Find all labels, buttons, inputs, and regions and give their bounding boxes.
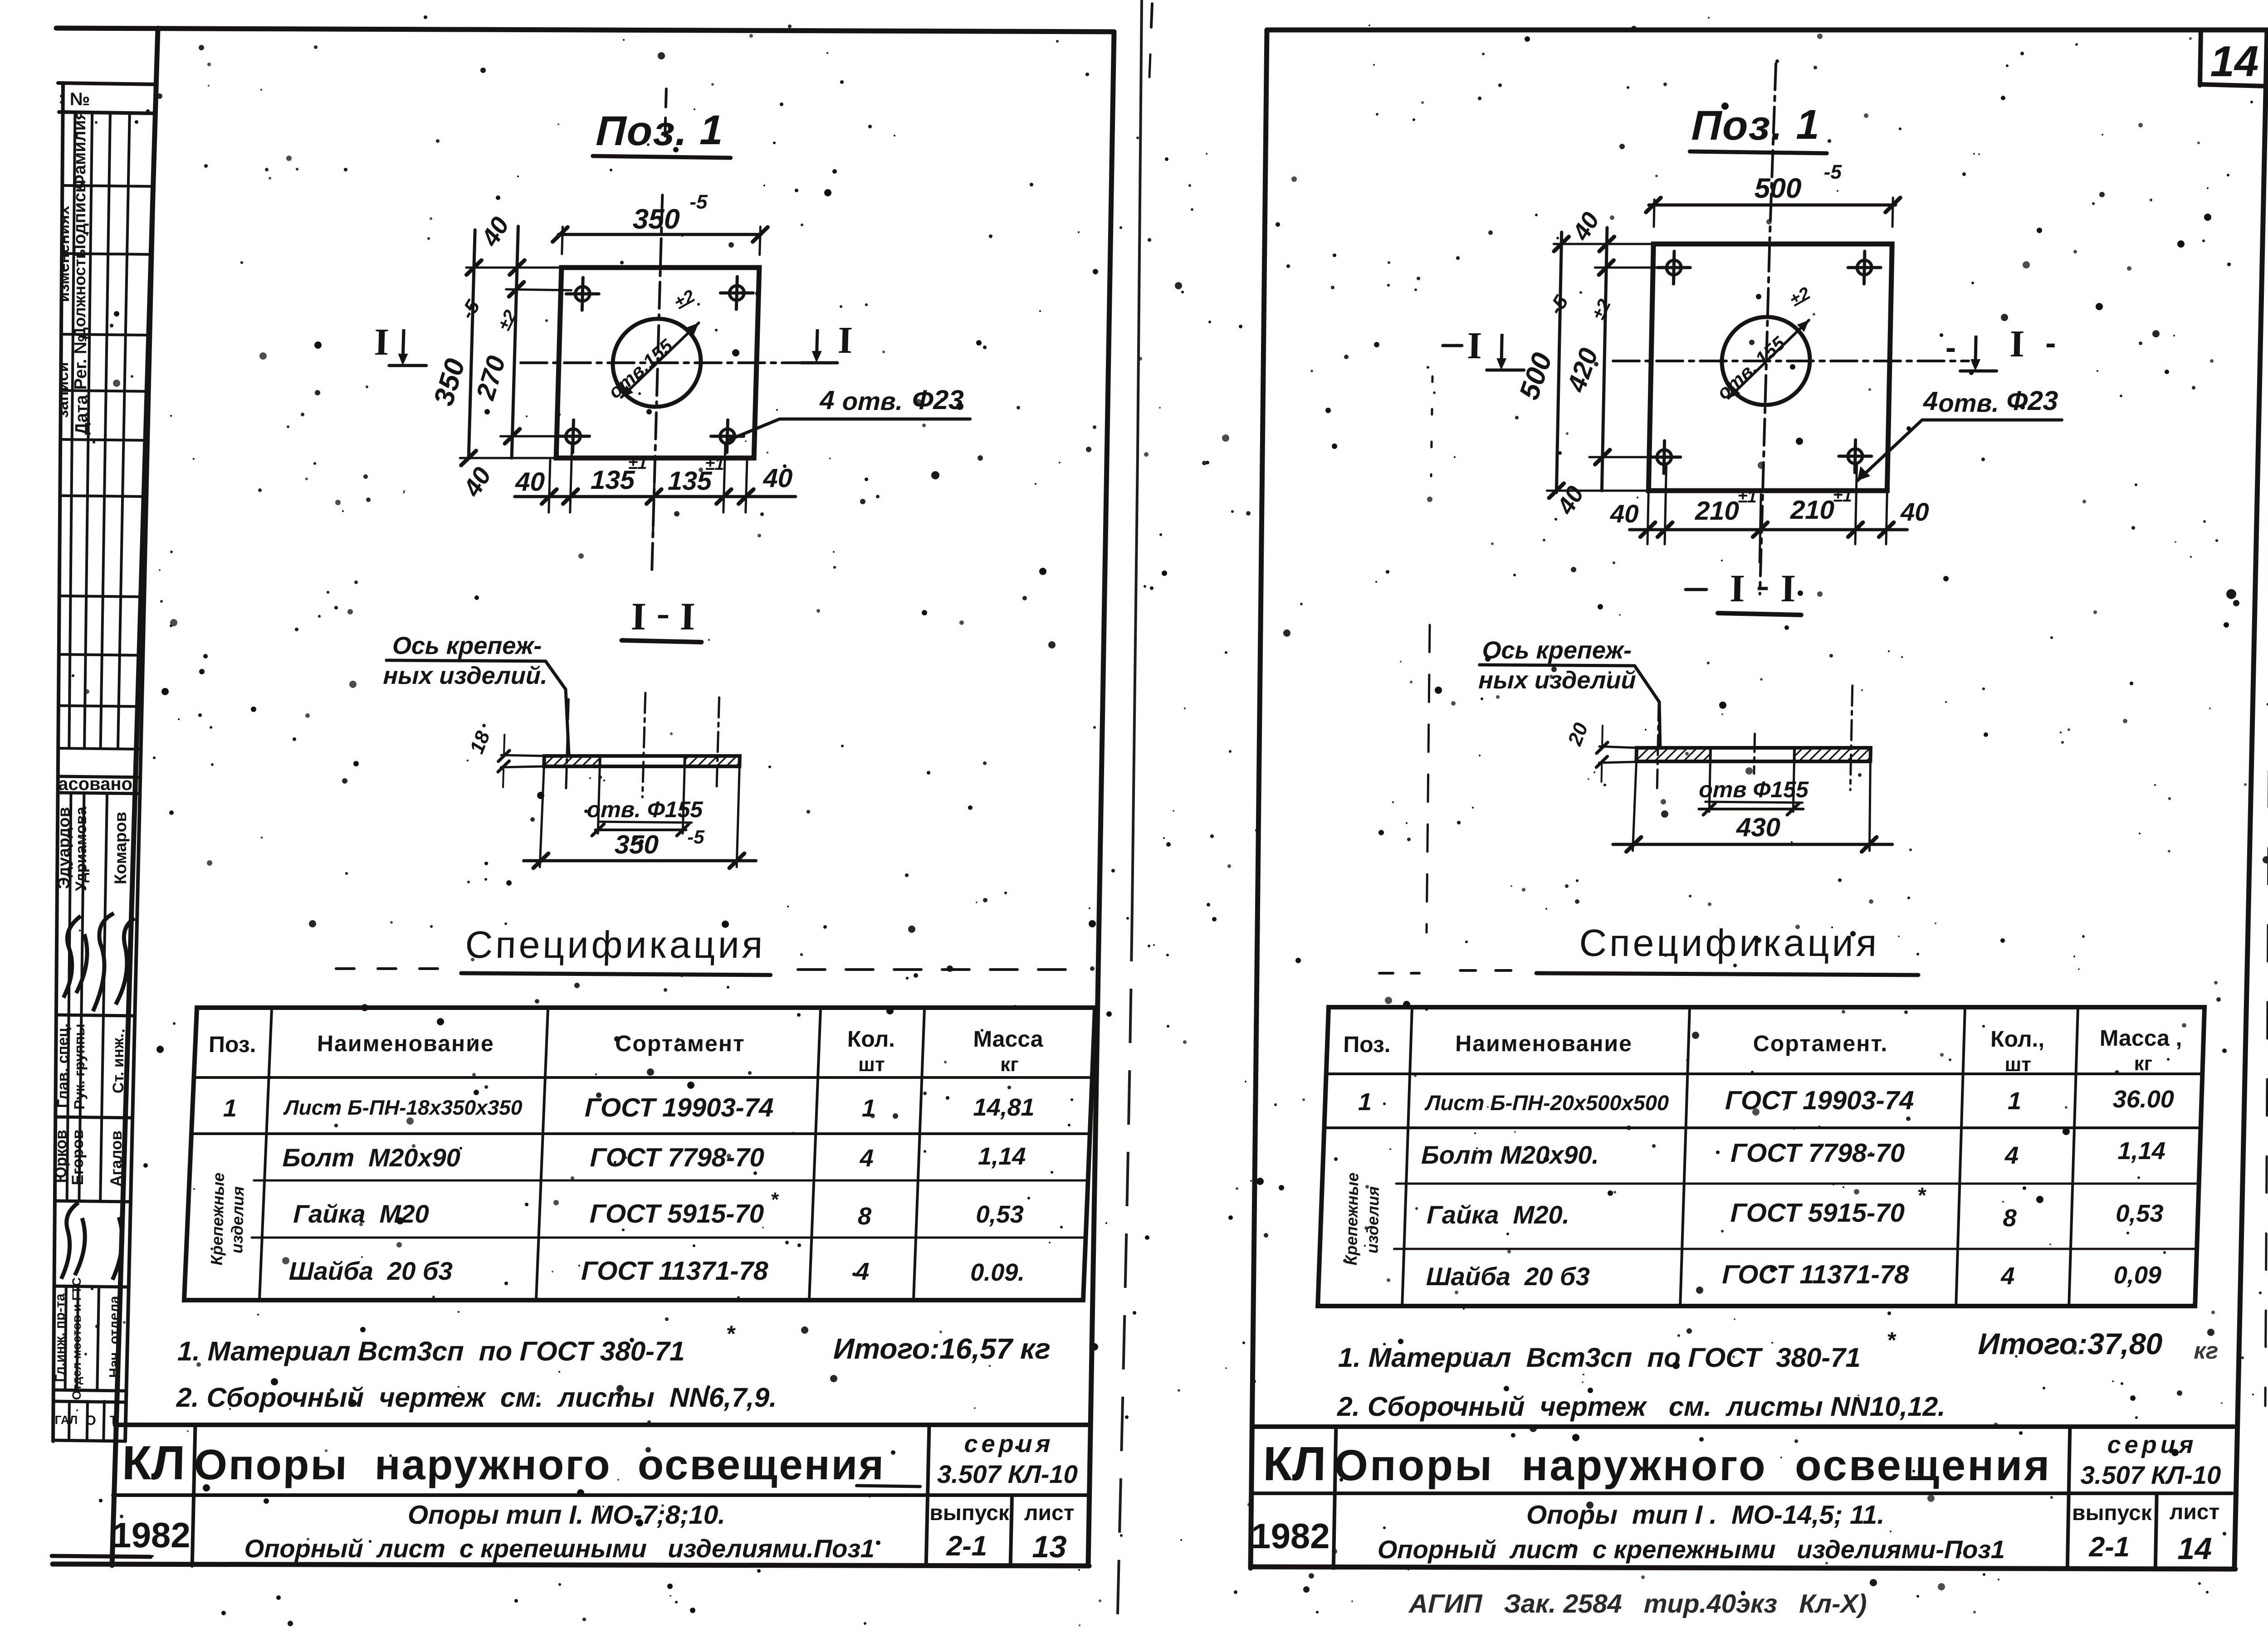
central hole circle (1721, 317, 1811, 405)
spec table row lines (194, 1076, 1093, 1079)
svg-text:Ст. инж.: Ст. инж. (110, 1033, 127, 1093)
svg-text:Подпись: Подпись (70, 182, 89, 257)
dim 430 (1633, 764, 1636, 851)
svg-text:4: 4 (855, 1258, 870, 1285)
left outer dimension 500-5 (1556, 232, 1561, 492)
svg-text:0,53: 0,53 (2116, 1200, 2164, 1227)
svg-text:1: 1 (699, 107, 723, 153)
svg-text:I: I (1466, 325, 1482, 367)
svg-text:1,14: 1,14 (978, 1143, 1026, 1170)
svg-text:шт: шт (858, 1053, 885, 1076)
bottom dimension chain 40|210|210|40 (1630, 528, 1907, 531)
svg-text:3.507 КЛ-10: 3.507 КЛ-10 (2080, 1461, 2221, 1489)
hatched left segment (544, 756, 600, 766)
svg-text:36.00: 36.00 (2112, 1086, 2174, 1113)
bolt hole bottom-right (720, 429, 735, 444)
svg-text:-5: -5 (456, 296, 485, 323)
horizontal centerline (1613, 360, 1969, 362)
svg-text:Кол.: Кол. (847, 1026, 895, 1052)
svg-text:430: 430 (1735, 813, 1780, 842)
svg-text:I: I (2009, 323, 2025, 365)
svg-text:ГОСТ 11371-78: ГОСТ 11371-78 (581, 1256, 769, 1286)
svg-text:Лист Б-ПН-20х500х500: Лист Б-ПН-20х500х500 (1424, 1091, 1669, 1115)
svg-text:±1: ±1 (705, 455, 724, 474)
section mark I left (1443, 344, 1462, 347)
svg-text:210: 210 (1789, 495, 1834, 525)
svg-text:1: 1 (1358, 1088, 1372, 1116)
svg-text:Опорный лист с крепешными: Опорный лист с крепешными изделиями.Поз1 (244, 1534, 875, 1563)
svg-text:Рег. №: Рег. № (71, 335, 90, 390)
spine dash artifacts (1151, 4, 1152, 27)
sheet frame top border (56, 28, 1114, 32)
thickness dim 20 (1599, 746, 1637, 748)
svg-text:4: 4 (819, 385, 835, 415)
plate centerline (642, 693, 645, 797)
svg-text:4: 4 (859, 1145, 874, 1172)
central hole circle отв.155 (611, 319, 702, 407)
svg-text:асовано: асовано (58, 774, 132, 794)
stamp outer right vertical (125, 83, 156, 1441)
svg-text:Опорный лист с крепежными: Опорный лист с крепежными изделиями-Поз1 (1377, 1535, 2005, 1564)
svg-text:КЛ: КЛ (122, 1436, 186, 1490)
right title verticals (1334, 1427, 1336, 1568)
svg-text:Гайка М20.: Гайка М20. (1427, 1200, 1570, 1229)
svg-text:1: 1 (223, 1095, 237, 1122)
svg-text:ГОСТ 5915-70: ГОСТ 5915-70 (1730, 1198, 1905, 1228)
inner dimension 270±2 (vertical) (512, 226, 518, 458)
svg-text:0,53: 0,53 (976, 1201, 1024, 1228)
section mark I right (1975, 336, 1976, 362)
svg-text:14: 14 (2177, 1531, 2212, 1566)
stamp duty titles (68, 1017, 68, 1117)
svg-text:±2: ±2 (1786, 283, 1813, 311)
svg-text:I: I (631, 595, 647, 638)
top dimension 350-5 (558, 233, 761, 236)
fold dashes right of heading (798, 968, 1085, 971)
svg-text:Фамилия: Фамилия (70, 110, 89, 190)
right spec table outer box (1318, 1007, 2204, 1306)
svg-text:350: 350 (614, 830, 659, 859)
svg-text:-: - (2045, 325, 2056, 361)
svg-text::: : (59, 88, 64, 107)
svg-text:-: - (1945, 330, 1956, 365)
svg-text:18: 18 (465, 728, 494, 756)
svg-text:Ось крепеж-: Ось крепеж- (1482, 637, 1632, 664)
sheet number box 14 (2200, 30, 2201, 85)
vertical centerline (1769, 63, 1776, 240)
svg-text:-5: -5 (1823, 161, 1842, 183)
svg-text:1982: 1982 (1251, 1516, 1330, 1556)
svg-text:I: I (1729, 566, 1745, 610)
svg-text:ГОСТ 7798-70: ГОСТ 7798-70 (590, 1143, 764, 1172)
svg-text:8: 8 (857, 1203, 871, 1230)
spec table outer box (184, 1008, 1095, 1300)
svg-text:выпуск: выпуск (929, 1501, 1010, 1525)
sheet frame bottom border (53, 1564, 1089, 1566)
stamp empty row lines (60, 496, 147, 497)
svg-text:кг: кг (1000, 1053, 1019, 1076)
svg-text:Глав. спец.: Глав. спец. (54, 1024, 72, 1108)
inner dimension 420±2 (1602, 228, 1607, 491)
bolt hole top-right (1857, 260, 1872, 275)
svg-text:2. Сборочный чертеж см. ли: 2. Сборочный чертеж см. листы NN10,12. (1337, 1391, 1946, 1422)
svg-text:40: 40 (475, 212, 515, 251)
bolt axis dash-dot lines (1657, 701, 1659, 788)
svg-text:Нач. отдела: Нач. отдела (106, 1296, 122, 1378)
hole diameter diagonal (1728, 320, 1809, 398)
hatched left segment (1636, 748, 1711, 761)
svg-text:420: 420 (1561, 345, 1603, 396)
svg-text:13: 13 (1032, 1530, 1067, 1564)
svg-text:350: 350 (428, 356, 471, 409)
svg-text:Поз.: Поз. (208, 1032, 256, 1057)
bolt hole top-left (575, 287, 590, 301)
svg-text:*: * (1917, 1184, 1927, 1208)
view title Поз. 1 (593, 107, 732, 158)
section mark I (right) (817, 329, 818, 354)
svg-text:4: 4 (1923, 386, 1939, 416)
stamp top cell (58, 83, 157, 84)
svg-text:Опоры тип I. МО-7;8;10.: Опоры тип I. МО-7;8;10. (407, 1500, 726, 1530)
svg-text:8: 8 (2003, 1204, 2017, 1232)
horizontal centerline (521, 361, 826, 364)
svg-text:-5: -5 (689, 191, 708, 213)
plate cross-section outline (544, 756, 740, 766)
svg-text:1. Материал Вст3сп по ГОСТ 38: 1. Материал Вст3сп по ГОСТ 380-71 (177, 1336, 685, 1366)
svg-text:Крепежные: Крепежные (1342, 1173, 1362, 1266)
title block outer lines (115, 1423, 1090, 1427)
svg-text:2-1: 2-1 (2088, 1531, 2130, 1563)
bolt axis lines (dash-dot) (566, 699, 569, 790)
svg-text:серия: серия (964, 1430, 1054, 1458)
svg-text:записи: записи (53, 362, 72, 418)
sheet frame left border (112, 28, 158, 1565)
hatched right segment (684, 756, 740, 766)
fold dash artifact left of section (1427, 625, 1430, 932)
svg-text:Болт М20х90.: Болт М20х90. (1421, 1141, 1599, 1169)
svg-text:±1: ±1 (1833, 487, 1853, 506)
hole diameter dimension diagonal (621, 323, 699, 397)
svg-text:Болт М20х90: Болт М20х90 (282, 1143, 460, 1172)
leader 4отв Ф23 (1857, 420, 1922, 481)
right view title Поз. 1 (1690, 102, 1828, 153)
second signature squiggles (61, 1203, 122, 1280)
svg-text:ГОСТ 19903-74: ГОСТ 19903-74 (584, 1093, 774, 1122)
svg-text:отв. Ф155: отв. Ф155 (587, 797, 704, 822)
svg-text:2-1: 2-1 (946, 1531, 987, 1562)
bolt hole top-left (1667, 260, 1681, 275)
svg-text:изделия: изделия (1363, 1186, 1383, 1253)
svg-text:4: 4 (2000, 1263, 2015, 1290)
svg-text:14,81: 14,81 (973, 1094, 1035, 1121)
svg-text:±1: ±1 (628, 454, 647, 473)
svg-text:выпуск: выпуск (2072, 1501, 2153, 1525)
svg-text:ных изделий: ных изделий (1478, 667, 1636, 694)
corner dimension 40 top (1599, 237, 1614, 251)
svg-text:I: I (837, 319, 853, 361)
stamp bottom boxes (54, 1401, 126, 1402)
svg-text:350: 350 (632, 204, 680, 235)
svg-text:1: 1 (862, 1095, 876, 1122)
svg-text:Поз.: Поз. (1343, 1032, 1391, 1057)
svg-text:лист: лист (2169, 1500, 2219, 1524)
centerline (1754, 734, 1755, 774)
svg-text:±2: ±2 (1588, 296, 1615, 323)
svg-text:±1: ±1 (1738, 487, 1757, 507)
right plate outline (500x500) (1648, 244, 1892, 491)
svg-text:40: 40 (514, 467, 545, 497)
svg-text:Наименование: Наименование (317, 1031, 494, 1056)
svg-text:270: 270 (470, 353, 511, 403)
svg-text:Удриамова: Удриамова (73, 806, 90, 891)
svg-text:шт: шт (2004, 1053, 2031, 1076)
signature squiggles (64, 913, 135, 1011)
svg-text:-: - (656, 591, 670, 634)
svg-text:I: I (374, 321, 390, 363)
page spine line (1132, 0, 1142, 907)
svg-text:Опоры наружного освещения: Опоры наружного освещения (1334, 1441, 2052, 1490)
svg-text:Спецификация: Спецификация (464, 923, 766, 966)
svg-text:20: 20 (1564, 720, 1593, 749)
vertical centerline (665, 89, 666, 136)
extra bottom rule left stub (52, 1556, 151, 1557)
svg-text:Поз.: Поз. (1691, 102, 1784, 149)
svg-text:40: 40 (1900, 497, 1930, 526)
svg-text:Комаров: Комаров (111, 812, 130, 884)
svg-text:I: I (679, 595, 696, 638)
svg-text:*: * (770, 1189, 779, 1211)
svg-text:Рук. группы: Рук. группы (71, 1024, 88, 1109)
svg-text:Крепежные: Крепежные (207, 1173, 228, 1266)
svg-text:500: 500 (1754, 173, 1802, 204)
svg-text:1982: 1982 (111, 1515, 191, 1555)
leader 4отв. Ф23 (729, 419, 779, 440)
svg-text:Итого:37,80: Итого:37,80 (1978, 1327, 2163, 1360)
specification heading (336, 923, 1086, 975)
svg-text:ГОСТ 7798-70: ГОСТ 7798-70 (1730, 1138, 1905, 1168)
svg-text:лист: лист (1024, 1501, 1075, 1525)
svg-text:Дата: Дата (72, 395, 91, 435)
svg-text:-5: -5 (687, 826, 705, 848)
svg-text:-: - (1756, 563, 1770, 606)
svg-text:серия: серия (2107, 1431, 2197, 1458)
svg-text:Егоров: Егоров (69, 1129, 87, 1185)
svg-text:-5: -5 (1545, 292, 1573, 318)
svg-text:КЛ: КЛ (1262, 1437, 1326, 1491)
svg-text:изделия: изделия (227, 1186, 247, 1253)
left sheet (0, 0, 1161, 1633)
svg-text:Сортамент: Сортамент (615, 1031, 746, 1056)
svg-text:40: 40 (457, 463, 497, 502)
stamp signer names (69, 794, 71, 1015)
svg-text:Наименование: Наименование (1455, 1031, 1633, 1056)
svg-text:Масса ,: Масса , (2099, 1025, 2182, 1051)
svg-text:отв.: отв. (842, 387, 903, 415)
svg-text:210: 210 (1694, 496, 1739, 526)
svg-text:Отдел мостов и ГТС: Отдел мостов и ГТС (70, 1277, 83, 1400)
svg-text:±2: ±2 (671, 286, 698, 313)
right sheet frame top border (1267, 28, 2267, 33)
right specification heading (1379, 921, 1919, 975)
svg-text:ГАЛ: ГАЛ (55, 1413, 78, 1427)
svg-text:Лист Б-ПН-18х350х350: Лист Б-ПН-18х350х350 (283, 1096, 523, 1119)
svg-text:Опоры тип I . МО-14,5; 11.: Опоры тип I . МО-14,5; 11. (1526, 1500, 1885, 1530)
svg-text:АГИП Зак. 2584 тир.40экз: АГИП Зак. 2584 тир.40экз Кл-Х) (1408, 1589, 1867, 1618)
svg-text:Эдуардов: Эдуардов (54, 807, 73, 889)
svg-text:0,09: 0,09 (2113, 1262, 2161, 1289)
svg-text:14: 14 (2210, 37, 2259, 86)
left outer dimension 350-5 (vertical) (469, 230, 475, 459)
svg-text:Ф23: Ф23 (2006, 385, 2058, 416)
corner dimension 40 (top-left, rotated) (509, 260, 524, 275)
right table row lines (1326, 1072, 2203, 1075)
svg-text:кг: кг (2194, 1338, 2219, 1364)
svg-text:Спецификация: Спецификация (1579, 921, 1880, 964)
svg-text:3.507 КЛ-10: 3.507 КЛ-10 (937, 1460, 1078, 1488)
svg-text:1,14: 1,14 (2117, 1137, 2165, 1165)
svg-text:Гл.инж. пр-та: Гл.инж. пр-та (53, 1293, 68, 1382)
svg-text:ГОСТ 11371-78: ГОСТ 11371-78 (1722, 1260, 1910, 1289)
section title I-I (621, 591, 703, 642)
bolt hole top-right (729, 286, 744, 300)
thickness dim 18 (501, 755, 544, 756)
bolt hole bottom-left (566, 429, 581, 444)
top dimension 500-5 (1649, 204, 1896, 207)
svg-text:Поз.: Поз. (595, 108, 689, 154)
svg-text:Шайба 20 б3: Шайба 20 б3 (288, 1257, 453, 1285)
plate outline (350x350) (556, 268, 759, 458)
right section title I-I (1685, 563, 1802, 615)
svg-text:1: 1 (1796, 102, 1820, 148)
svg-text:Опоры наружного освещения: Опоры наружного освещения (194, 1441, 886, 1488)
stamp agreement row (58, 776, 141, 777)
svg-text:Гайка М20: Гайка М20 (293, 1199, 430, 1228)
svg-text:O: O (85, 1413, 96, 1428)
leader to axis (1633, 666, 1662, 749)
svg-text:500: 500 (1513, 349, 1558, 404)
svg-text:отв.: отв. (1938, 389, 1999, 417)
dim отв. Ф155 (598, 768, 600, 834)
svg-text:Кол.,: Кол., (1990, 1026, 2045, 1052)
svg-text:I: I (1780, 566, 1796, 610)
chain extension dashes below (652, 522, 653, 572)
stamp outer left vertical (53, 83, 63, 1441)
bolt hole bottom-right (1848, 449, 1863, 463)
svg-text:отв Ф155: отв Ф155 (1699, 777, 1809, 802)
svg-text:0.09.: 0.09. (970, 1259, 1025, 1286)
svg-text:Ось крепеж-: Ось крепеж- (392, 632, 542, 659)
hatched right segment (1794, 748, 1871, 761)
right sheet frame left border (1251, 30, 1267, 1568)
svg-text:Должность: Должность (70, 249, 89, 339)
svg-text:40: 40 (1567, 208, 1605, 245)
svg-text:1. Материал Вст3сп по ГОСТ: 1. Материал Вст3сп по ГОСТ 380-71 (1338, 1342, 1861, 1373)
svg-text:Сортамент.: Сортамент. (1753, 1031, 1888, 1056)
svg-text:4: 4 (2004, 1142, 2019, 1169)
svg-text:Юрков: Юрков (52, 1130, 70, 1183)
svg-text:№: № (70, 89, 90, 109)
right plate cross-section (1636, 748, 1871, 761)
right sheet frame right border (2234, 30, 2267, 1568)
svg-text:кг: кг (2134, 1053, 2152, 1075)
svg-text:Агалов: Агалов (108, 1131, 125, 1187)
dim 350-5 (section) (540, 768, 544, 867)
right sheet (1143, 0, 2268, 1633)
svg-text:2. Сборочный чертеж см. лис: 2. Сборочный чертеж см. листы NN6,7,9. (176, 1382, 777, 1413)
right sheet frame bottom border (1251, 1567, 2235, 1569)
svg-text:ГОСТ 19903-74: ГОСТ 19903-74 (1725, 1086, 1914, 1115)
svg-text:1: 1 (2008, 1087, 2022, 1115)
svg-text:Ф23: Ф23 (912, 385, 964, 415)
bottom dimension chain 40|135|135|40 (515, 495, 796, 498)
title block verticals (192, 1425, 196, 1566)
svg-text:ГОСТ 5915-70: ГОСТ 5915-70 (589, 1199, 764, 1228)
bolt hole bottom-left (1657, 450, 1672, 464)
dim отв Ф155 (1709, 764, 1710, 812)
stamp header row lines (62, 185, 154, 186)
leader to bolt axis (543, 661, 572, 755)
svg-text:ных изделий.: ных изделий. (383, 662, 548, 689)
svg-text:Шайба 20 б3: Шайба 20 б3 (1426, 1262, 1590, 1291)
svg-text:*: * (1887, 1327, 1897, 1353)
spec table column lines (259, 1008, 272, 1300)
svg-text:40: 40 (1610, 499, 1639, 528)
right table column lines (1402, 1007, 1412, 1306)
svg-text:Итого:16,57 кг: Итого:16,57 кг (833, 1332, 1051, 1365)
svg-text:Масса: Масса (973, 1026, 1044, 1052)
svg-text:изменениях: изменениях (54, 206, 73, 302)
svg-text:*: * (726, 1321, 736, 1346)
sheet frame right border (1088, 32, 1114, 1565)
right title block outer lines (1254, 1424, 2234, 1429)
svg-text:40: 40 (763, 463, 793, 493)
